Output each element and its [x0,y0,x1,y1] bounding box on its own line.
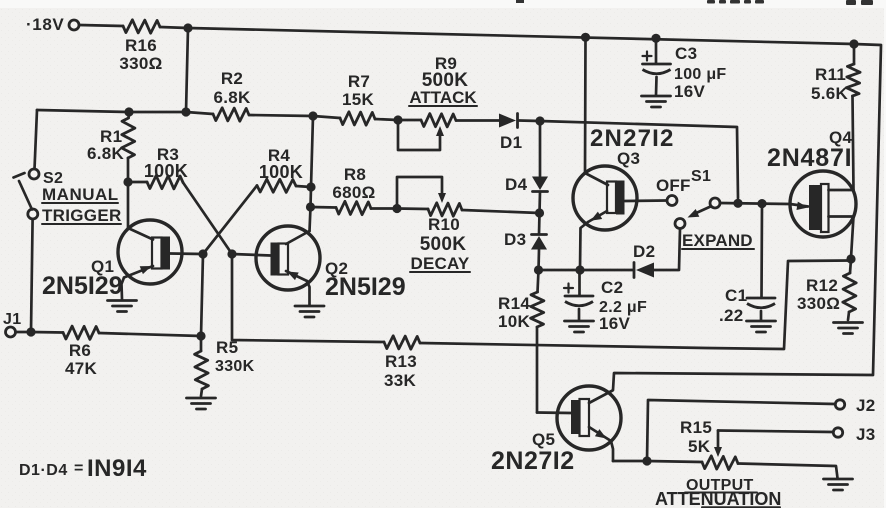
wire +18V to R16 [80,25,124,26]
svg-text:MANUAL: MANUAL [42,185,119,204]
svg-text:ATTACK: ATTACK [409,88,477,107]
wire Q5 emitter to node [613,460,647,463]
potentiometer R9 500K ATTACK [398,119,421,122]
potentiometer R10 500K DECAY [397,207,428,210]
wire vertical to R8 node [309,187,312,207]
terminal +18V [69,20,79,30]
ground R12 [834,321,863,324]
node R8/R10-wiper [392,204,401,213]
wire R15 to ground [738,464,838,479]
svg-text:330Ω: 330Ω [119,54,162,73]
node R8/Q2-collector [306,202,315,211]
node R2/R7/Q2-collector [308,111,317,120]
svg-text:2N5I29: 2N5I29 [42,272,123,300]
node lower rail R16 [181,107,190,116]
wire rail right edge down to Q5 collector [613,44,881,390]
svg-text:D1: D1 [500,133,522,152]
svg-text:R15: R15 [680,418,712,437]
underline ATTACK [409,105,477,107]
ground C2 [565,320,594,323]
terminal J1 [6,327,16,337]
svg-text:R12: R12 [806,276,838,295]
ground R15 output [824,478,853,481]
node D4/D3/R10 [535,208,544,217]
wire D4 to node [538,192,541,213]
svg-text:D3: D3 [504,230,526,249]
node R1 top [124,107,133,116]
wire lower rail left segment [37,110,129,112]
ground Q1 [108,299,137,302]
wire C2 node to D2 [580,269,634,272]
wire left rail down to S2 [35,110,38,169]
node R4/Q2-collector [306,182,315,191]
svg-text:R11: R11 [815,65,846,84]
ground C3 [642,95,671,98]
svg-text:C2: C2 [601,278,623,297]
svg-text:J1: J1 [3,311,21,328]
svg-text:6.8K: 6.8K [87,144,125,163]
resistor R3 [128,181,147,184]
svg-text:ATTENUATION: ATTENUATION [655,489,781,508]
node Q3 collector rail [581,33,590,42]
diode D2 [633,263,636,278]
wire R9 to D1 [456,119,499,122]
svg-text:TRIGGER: TRIGGER [42,206,122,225]
transistor Q3 2N2712 [573,166,637,230]
underline ATTENUATION partial [702,506,780,508]
wire R4 to node [296,186,311,187]
wire Q4 B1 down [851,217,854,259]
svg-text:R10: R10 [428,215,460,234]
svg-text:R8: R8 [344,165,366,184]
svg-text:R2: R2 [221,69,243,88]
transistor Q1 2N5129 [118,220,182,284]
node R1/R3/Q1-collector [123,177,132,186]
resistor R4 [257,179,296,192]
potentiometer R15 5K [702,456,738,470]
resistor R14 [538,270,539,292]
node S1/D1-branch [733,199,742,208]
ground R5 [187,397,216,400]
wire R15 wiper to J3 [718,431,833,433]
wire R16 node down to lower rail [186,28,188,112]
diode D3 [532,233,547,236]
svg-text:DECAY: DECAY [411,254,470,273]
cropped text fragments top edge [516,0,524,3]
node S1/C1 [757,199,766,208]
resistor R11 [853,44,856,64]
underline OUTPUT [685,492,757,494]
wire node to R6 [31,331,63,334]
svg-text:R6: R6 [69,341,91,360]
svg-text:2N27I2: 2N27I2 [590,125,675,152]
svg-text:10K: 10K [498,312,531,331]
svg-text:C1: C1 [725,286,747,305]
resistor R12 [850,259,851,273]
resistor R8 [311,206,337,209]
underline MANUAL [42,202,118,204]
wire Q2 collector vertical upper [311,116,313,187]
node D1/D4 [535,116,544,125]
capacitor C3 100uF [655,38,658,63]
svg-text:100K: 100K [144,161,188,181]
wire Q1 base node to R4 [203,186,257,255]
node +18V/R16 [183,23,192,32]
wire S1 pole to Q4 emitter [720,203,790,204]
svg-text:15K: 15K [342,90,375,109]
svg-text:J3: J3 [856,425,876,444]
wire node down to Q2 collector [310,207,311,231]
svg-text:5.6K: 5.6K [811,84,849,103]
resistor R16 [123,20,160,33]
wire rail to R2 [186,112,213,114]
diode D1 [499,114,516,128]
svg-text:J2: J2 [856,396,876,415]
capacitor C2 2.2uF [578,270,581,296]
svg-text:100K: 100K [259,162,303,182]
terminal J2 [835,400,844,409]
svg-text:500K: 500K [420,234,467,255]
svg-text:·18V: ·18V [26,15,64,34]
wire node to D4 [539,121,542,176]
wire node to R15 [647,461,702,462]
wire D3 node to C2 node [539,269,581,272]
svg-text:2N5I29: 2N5I29 [325,273,406,301]
svg-text:2N487I: 2N487I [767,144,852,172]
wire S2 to J1 node [31,219,33,332]
svg-text:.22: .22 [719,306,744,325]
underline TRIGGER [42,223,121,225]
node Q1 base [198,249,207,258]
svg-text:R7: R7 [348,72,370,91]
svg-text:D1·D4: D1·D4 [19,462,68,479]
ground C1 [747,320,776,323]
svg-text:Q3: Q3 [617,149,640,168]
resistor R13 [384,336,420,349]
node R7/R9-wiper [393,115,402,124]
wire node up to Q1 base node [201,254,203,336]
underline EXPAND [682,248,754,250]
svg-text:100 μF: 100 μF [674,66,727,83]
node Q2 base [227,249,236,258]
svg-text:D2: D2 [633,242,655,261]
node J1/S2/R6 [26,327,35,336]
resistor R2 [213,108,249,121]
node C2/Q3-emitter [575,265,584,274]
wire +18V top rail [188,28,854,44]
resistor R7 [313,116,340,118]
switch S2 [29,169,39,179]
diode D4 [532,177,548,191]
wire Q2 base down to R13 [232,254,384,342]
svg-text:R13: R13 [385,352,417,371]
wire J1 to node [16,331,32,334]
svg-text:C3: C3 [675,44,697,63]
switch S1 [667,196,677,206]
resistor R1 [127,112,130,118]
node output/J2-branch [642,456,651,465]
wire R3 to Q2 base node [183,183,232,255]
wire D1 node right and down to S1 [540,121,738,198]
svg-text:R16: R16 [125,36,157,55]
wire R6 to node [99,333,201,336]
node D3/R14/C2-line [534,265,543,274]
transistor Q2 2N5129 [256,226,320,290]
svg-text:16V: 16V [599,314,631,333]
wire R13 to Q4 B1 node [420,261,851,350]
svg-text:680Ω: 680Ω [332,183,375,202]
wire D1 to node [519,119,540,122]
underline DECAY [410,271,470,273]
svg-text:R14: R14 [498,294,530,313]
svg-text:330Ω: 330Ω [797,294,840,313]
node C3 rail [651,34,660,43]
resistor R5 [200,336,203,351]
wire D2 to EXPAND contact [654,229,680,270]
svg-text:=: = [74,460,84,477]
terminal J3 [833,428,842,437]
transistor Q4 2N4871 UJT [790,171,856,237]
svg-text:EXPAND: EXPAND [682,231,753,250]
svg-text:OFF: OFF [656,176,691,195]
wire node to D3 [538,213,541,234]
svg-text:S1: S1 [691,168,711,185]
wire R2 to node [249,115,313,116]
svg-text:6.8K: 6.8K [213,88,251,107]
node Q4-B1/R12/R13 [846,254,855,263]
svg-text:330K: 330K [215,358,255,375]
capacitor C1 .22 [760,204,763,298]
node R5/R6/Q1-base [196,331,205,340]
svg-text:47K: 47K [65,359,98,378]
svg-text:2N27I2: 2N27I2 [491,447,575,475]
transistor Q5 2N2712 [557,386,621,450]
node R11 rail [849,39,858,48]
svg-text:5K: 5K [688,437,711,456]
ground Q2 [295,305,324,308]
wire lower rail mid segment [129,111,186,114]
svg-text:33K: 33K [384,371,417,390]
wire R10 to D4/D3 node [462,210,540,213]
svg-text:IN9I4: IN9I4 [87,455,147,482]
resistor R6 [63,326,99,339]
svg-text:16V: 16V [674,82,706,101]
wire R16 to node [160,27,188,28]
wire D3 to node [537,250,540,270]
svg-text:D4: D4 [505,175,528,194]
wire J2 branch [647,400,835,461]
wire R14 to Q5 base [537,411,571,414]
